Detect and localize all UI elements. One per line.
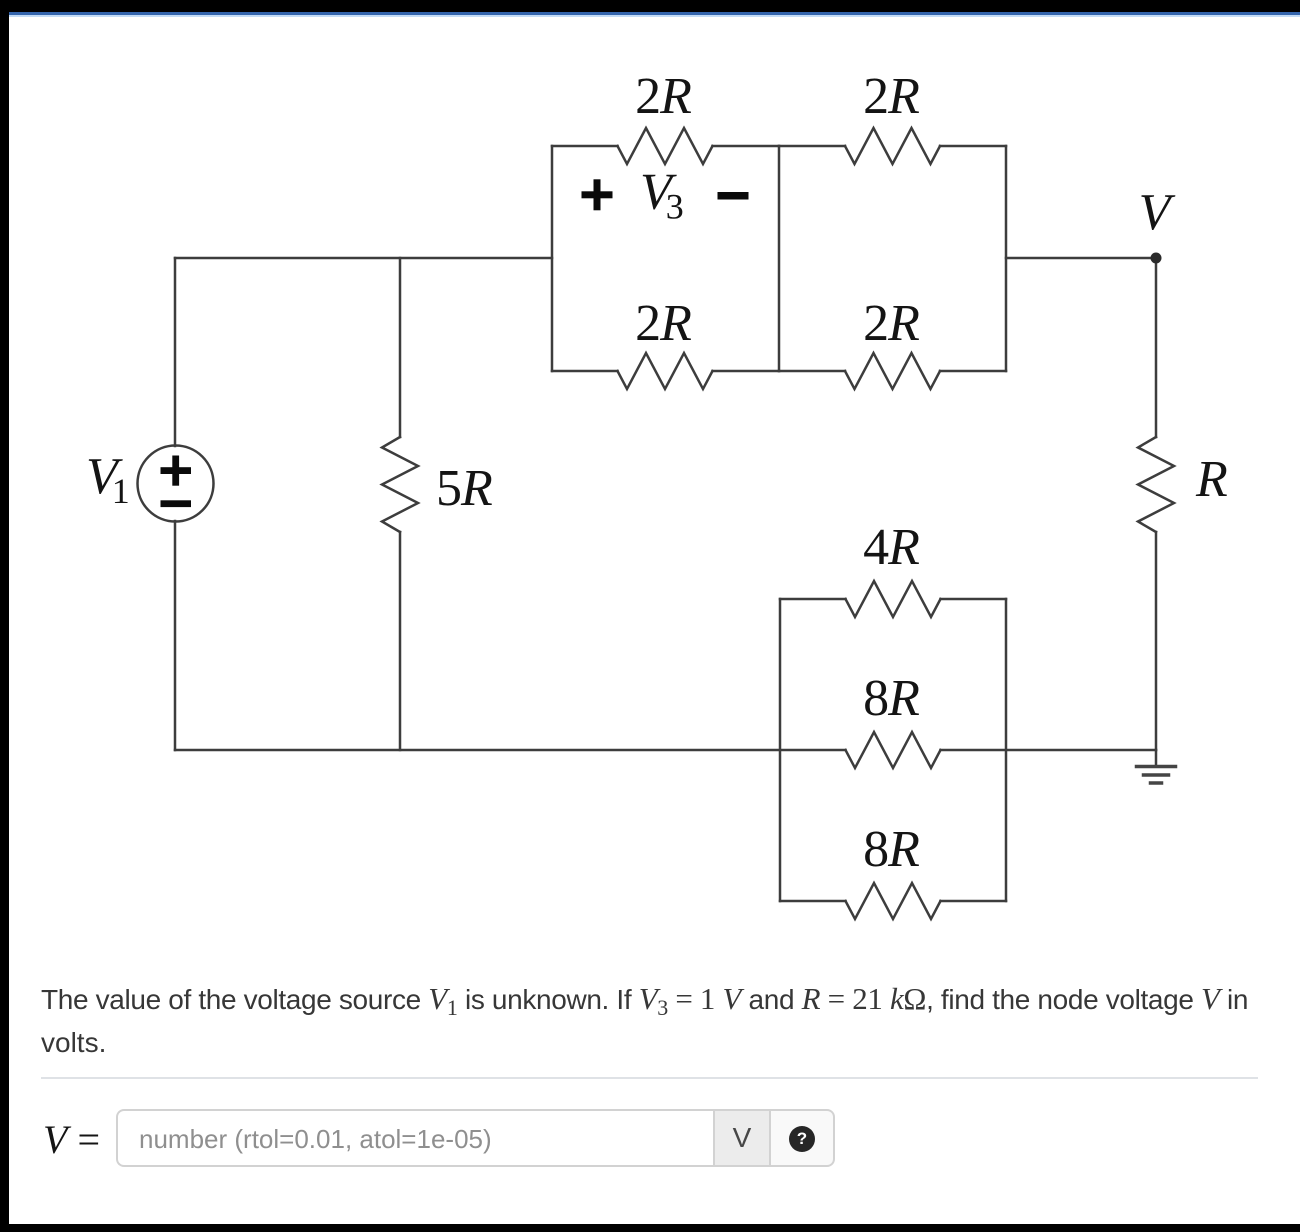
svg-text:R: R bbox=[1195, 451, 1227, 508]
divider bbox=[41, 1077, 1258, 1079]
bottom box bottom leads bbox=[780, 900, 1006, 903]
svg-text:V1: V1 bbox=[86, 448, 129, 511]
label V3 bbox=[640, 164, 683, 227]
node V dot bbox=[1151, 253, 1162, 264]
wire right box bottom leads bbox=[779, 370, 1006, 373]
label node V bbox=[1139, 184, 1176, 241]
svg-text:5R: 5R bbox=[436, 460, 492, 517]
svg-text:2R: 2R bbox=[635, 68, 691, 125]
wire top: V1 node to left parallel box bbox=[175, 257, 552, 260]
label 5R bbox=[436, 460, 492, 517]
voltage source V1 bbox=[138, 446, 214, 522]
question text bbox=[41, 978, 1281, 1064]
V1 plus sign bbox=[161, 456, 192, 486]
wire 5R branch bottom lead bbox=[399, 532, 402, 750]
svg-text:4R: 4R bbox=[863, 519, 919, 576]
wire middle edge between boxes bbox=[778, 146, 781, 371]
wire left box bottom leads bbox=[552, 370, 779, 373]
resistor 2R (bottom left) bbox=[618, 353, 713, 389]
label 8R bottom bbox=[863, 821, 919, 878]
bottom box top leads bbox=[780, 598, 1006, 601]
label R bbox=[1195, 451, 1227, 508]
label minus of V3 bbox=[718, 192, 749, 200]
svg-text:2R: 2R bbox=[863, 295, 919, 352]
bottom box left edge bbox=[779, 599, 782, 901]
resistor R bbox=[1138, 437, 1174, 532]
svg-text:8R: 8R bbox=[863, 670, 919, 727]
wire left box top leads bbox=[552, 145, 779, 148]
circuit schematic bbox=[0, 0, 1300, 950]
resistor 2R (top right) bbox=[845, 128, 940, 164]
svg-text:2R: 2R bbox=[863, 68, 919, 125]
label 8R middle bbox=[863, 670, 919, 727]
svg-text:2R: 2R bbox=[635, 295, 691, 352]
resistor 4R bbox=[846, 581, 941, 617]
wire right box right edge bbox=[1005, 146, 1008, 371]
label 2R bottom-left bbox=[635, 295, 691, 352]
label 4R bbox=[863, 519, 919, 576]
resistor 5R bbox=[382, 437, 418, 532]
label 2R top-right bbox=[863, 68, 919, 125]
wire right box to node V bbox=[1006, 257, 1156, 260]
label plus of V3 bbox=[582, 179, 613, 210]
resistor 8R (bottom branch) bbox=[846, 883, 941, 919]
svg-text:V3: V3 bbox=[640, 164, 683, 227]
answer label V = bbox=[43, 1116, 100, 1163]
wire bottom rail left segment bbox=[175, 749, 846, 752]
wire bottom rail right segment bbox=[941, 749, 1157, 752]
V1 minus sign bbox=[161, 500, 192, 507]
svg-text:V: V bbox=[1139, 184, 1176, 241]
wire right box top leads bbox=[779, 145, 1006, 148]
wire R branch top lead bbox=[1155, 258, 1158, 437]
label V1 bbox=[86, 448, 129, 511]
resistor 2R (top left) bbox=[618, 128, 713, 164]
help button bbox=[771, 1109, 835, 1167]
input box bbox=[116, 1109, 713, 1167]
label 2R top-left bbox=[635, 68, 691, 125]
wire ground stub bbox=[1155, 750, 1158, 765]
label 2R bottom-right bbox=[863, 295, 919, 352]
wire left rail upper (V1 top lead) bbox=[174, 258, 177, 446]
resistor 2R (bottom right) bbox=[845, 353, 940, 389]
wire left box left edge bbox=[551, 146, 554, 371]
wire 5R branch top lead bbox=[399, 258, 402, 437]
resistor 8R (middle branch) bbox=[846, 732, 941, 768]
svg-text:8R: 8R bbox=[863, 821, 919, 878]
wire left rail lower (V1 bottom lead) bbox=[174, 521, 177, 750]
unit cell V bbox=[713, 1109, 771, 1167]
ground bbox=[1137, 767, 1176, 784]
wire R branch bottom lead bbox=[1155, 532, 1158, 750]
bottom box right edge bbox=[1005, 599, 1008, 901]
